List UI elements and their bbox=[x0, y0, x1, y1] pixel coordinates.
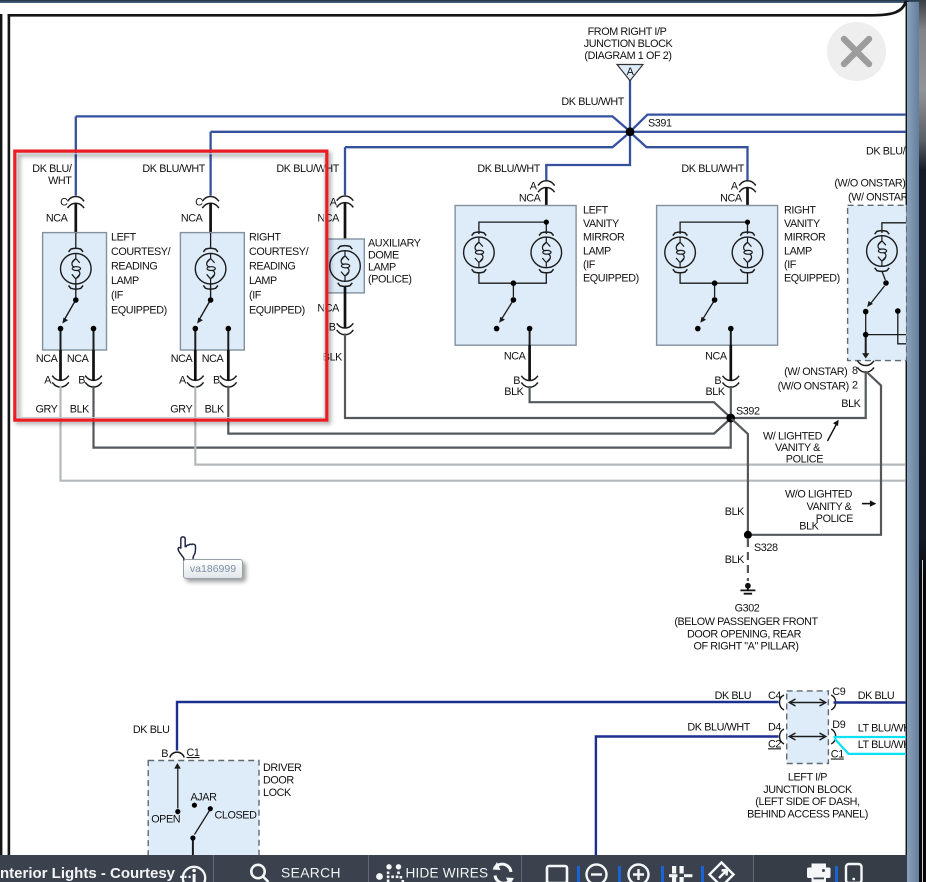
svg-text:8: 8 bbox=[852, 365, 858, 377]
svg-text:RIGHT: RIGHT bbox=[249, 231, 281, 243]
svg-text:NCA: NCA bbox=[519, 193, 542, 205]
svg-text:B: B bbox=[213, 375, 220, 387]
svg-text:LEFT: LEFT bbox=[583, 205, 609, 217]
switch contact nodes OPEN/AJAR/CLOSED (driver door lock) bbox=[175, 809, 180, 814]
svg-text:FROM RIGHT I/P: FROM RIGHT I/P bbox=[588, 26, 667, 38]
right vanity mirror lamp box bbox=[657, 205, 840, 346]
bulb (aux dome lamp) bbox=[330, 246, 361, 287]
wire: BLK from aux dome lamp to S392 bbox=[345, 334, 727, 419]
svg-text:MIRROR: MIRROR bbox=[784, 232, 826, 244]
wire: BLK from right courtesy lamp to S392 bbox=[228, 386, 729, 434]
wire: A connector into right vanity lamp bbox=[746, 188, 749, 220]
internal wiring (left vanity) bbox=[479, 220, 546, 346]
svg-text:LAMP: LAMP bbox=[249, 275, 277, 287]
svg-text:POLICE: POLICE bbox=[816, 513, 853, 525]
refresh icon bbox=[495, 864, 512, 882]
svg-text:MIRROR: MIRROR bbox=[583, 232, 625, 244]
svg-text:DOME: DOME bbox=[368, 250, 399, 262]
svg-text:(IF: (IF bbox=[111, 290, 124, 302]
note: W/O LIGHTED VANITY & POLICE with arrow bbox=[785, 489, 876, 533]
page frame: left border line bbox=[8, 14, 11, 855]
zoom in icon bbox=[629, 865, 649, 882]
junction block caption bbox=[747, 771, 868, 820]
svg-text:D4: D4 bbox=[768, 722, 781, 734]
svg-text:GRY: GRY bbox=[170, 404, 192, 416]
wire: A connector into left vanity lamp bbox=[545, 188, 548, 220]
wire: BLK pin to S392 (W/ LIGHTED VANITY & POLICE) bbox=[735, 371, 866, 418]
svg-text:SEARCH: SEARCH bbox=[281, 866, 341, 881]
svg-text:NCA: NCA bbox=[171, 353, 194, 365]
connector A (aux dome lamp) bbox=[276, 163, 353, 225]
connector C1 at driver door lock bbox=[161, 747, 200, 760]
wire: lamp internal top bbox=[210, 233, 212, 249]
svg-text:POLICE: POLICE bbox=[786, 454, 823, 466]
left vanity mirror lamp box bbox=[455, 205, 639, 346]
wire: S391 left top branch to left courtesy lamp drop bbox=[76, 116, 630, 195]
wire: dashed BLK from S328 to ground bbox=[747, 539, 749, 581]
svg-text:DK BLU: DK BLU bbox=[133, 724, 170, 736]
wire: lamp internal top bbox=[75, 233, 77, 249]
svg-text:LEFT: LEFT bbox=[111, 231, 137, 243]
wire: S391 left middle branch to right courtesy lamp drop bbox=[211, 132, 630, 196]
svg-text:READING: READING bbox=[249, 261, 295, 273]
wire: S391 left bottom branch to auxiliary dome lamp drop bbox=[345, 133, 630, 195]
svg-text:COURTESY/: COURTESY/ bbox=[249, 246, 309, 258]
svg-text:(POLICE): (POLICE) bbox=[368, 274, 412, 286]
switch contact nodes (left courtesy lamp) bbox=[58, 326, 64, 332]
svg-text:VANITY &: VANITY & bbox=[806, 501, 852, 513]
wire: LT BLU/WHT exits D9 to page edge bbox=[834, 736, 907, 738]
svg-text:VANITY &: VANITY & bbox=[775, 442, 821, 454]
svg-text:JUNCTION BLOCK: JUNCTION BLOCK bbox=[763, 784, 853, 796]
svg-text:nterior Lights - Courtesy ...: nterior Lights - Courtesy ... bbox=[0, 865, 192, 882]
svg-text:NCA: NCA bbox=[181, 213, 204, 225]
svg-text:OF RIGHT "A" PILLAR): OF RIGHT "A" PILLAR) bbox=[693, 641, 798, 653]
auxiliary dome lamp box bbox=[326, 238, 420, 293]
switch nodes (onstar module) bbox=[883, 280, 889, 286]
svg-text:DK BLU/WHT: DK BLU/WHT bbox=[561, 96, 624, 108]
svg-text:BLK: BLK bbox=[841, 398, 861, 410]
svg-text:GRY: GRY bbox=[35, 404, 57, 416]
svg-text:A: A bbox=[44, 375, 52, 387]
svg-text:W/O LIGHTED: W/O LIGHTED bbox=[785, 489, 853, 501]
print icon bbox=[807, 864, 831, 882]
svg-text:DK BLU/WHT: DK BLU/WHT bbox=[687, 722, 750, 734]
svg-text:CLOSED: CLOSED bbox=[215, 810, 258, 822]
bulb (onstar module) bbox=[867, 231, 898, 272]
wire: S391 branch to right vanity mirror lamp bbox=[631, 133, 748, 180]
splice S391 bbox=[626, 127, 635, 136]
svg-text:BLK: BLK bbox=[504, 386, 524, 398]
pin A connector (left courtesy lamp) bbox=[35, 350, 101, 416]
svg-text:BEHIND ACCESS PANEL): BEHIND ACCESS PANEL) bbox=[747, 809, 868, 821]
internal wiring (right vanity) bbox=[680, 220, 747, 346]
svg-text:BLK: BLK bbox=[799, 521, 819, 533]
svg-text:S328: S328 bbox=[754, 542, 778, 554]
wire: A connector into aux dome lamp bbox=[344, 203, 347, 245]
svg-text:NCA: NCA bbox=[317, 303, 340, 315]
junction block dashed box bbox=[787, 691, 829, 764]
svg-text:(BELOW PASSENGER FRONT: (BELOW PASSENGER FRONT bbox=[674, 616, 818, 628]
wire: S391 right middle branch exits page right bbox=[630, 131, 906, 133]
bulb right (left vanity) bbox=[531, 232, 562, 273]
svg-text:2: 2 bbox=[852, 380, 858, 392]
fit page icon bbox=[547, 866, 567, 882]
wire: aux dome lamp to pin B connector bbox=[344, 287, 347, 328]
svg-text:A: A bbox=[530, 181, 538, 193]
wire: C connector into lamp bbox=[74, 204, 77, 234]
wire: DK BLU from driver door lock to left I/P junction block C4 bbox=[177, 702, 779, 751]
bulb right (right vanity) bbox=[732, 232, 763, 273]
junction node at lamp feed (right vanity) bbox=[745, 220, 750, 225]
svg-text:NCA: NCA bbox=[36, 353, 59, 365]
svg-text:(DIAGRAM 1 OF 2): (DIAGRAM 1 OF 2) bbox=[584, 50, 671, 62]
svg-text:LAMP: LAMP bbox=[111, 275, 139, 287]
svg-text:NCA: NCA bbox=[504, 351, 527, 363]
svg-text:A: A bbox=[179, 375, 187, 387]
svg-text:DOOR: DOOR bbox=[263, 774, 294, 786]
svg-text:NCA: NCA bbox=[720, 193, 743, 205]
svg-text:B: B bbox=[78, 375, 85, 387]
svg-text:NCA: NCA bbox=[46, 213, 69, 225]
svg-text:OPEN: OPEN bbox=[151, 814, 180, 826]
internal wiring (onstar module) bbox=[862, 223, 906, 359]
svg-text:DRIVER: DRIVER bbox=[263, 762, 302, 774]
bulb (right courtesy lamp) bbox=[195, 248, 226, 289]
svg-text:VANITY: VANITY bbox=[784, 218, 820, 230]
wire: BLK from right vanity straight down to S392 bbox=[730, 386, 732, 418]
wire: S392 down to S328 bbox=[732, 419, 748, 533]
svg-text:D9: D9 bbox=[832, 719, 845, 731]
svg-text:EQUIPPED): EQUIPPED) bbox=[111, 304, 167, 316]
svg-text:READING: READING bbox=[111, 261, 157, 273]
switch (driver door lock) bbox=[174, 763, 209, 856]
svg-text:RIGHT: RIGHT bbox=[784, 205, 816, 217]
bottom toolbar bbox=[0, 855, 907, 882]
bulb left (right vanity) bbox=[665, 232, 696, 273]
tooltip va186999 bbox=[183, 559, 243, 579]
svg-text:LT BLU/WH: LT BLU/WH bbox=[858, 722, 911, 734]
pin 8/2 connector (onstar module) bbox=[778, 361, 874, 410]
svg-text:C9: C9 bbox=[832, 686, 845, 698]
svg-text:S391: S391 bbox=[648, 118, 672, 130]
svg-text:C1: C1 bbox=[187, 747, 200, 759]
svg-text:EQUIPPED): EQUIPPED) bbox=[784, 273, 840, 285]
wire: S391 right top branch exits page right bbox=[631, 115, 906, 131]
splice S392 bbox=[726, 414, 735, 423]
svg-text:(W/O ONSTAR): (W/O ONSTAR) bbox=[834, 178, 905, 190]
connector C (right courtesy lamp) bbox=[142, 163, 218, 225]
junction node at lamp feed (left vanity) bbox=[544, 220, 549, 225]
svg-text:NCA: NCA bbox=[317, 213, 340, 225]
note: W/ LIGHTED VANITY & POLICE with arrow bbox=[763, 420, 839, 466]
pin B connector (right vanity) bbox=[705, 345, 739, 398]
svg-text:DK BLU: DK BLU bbox=[715, 690, 752, 702]
svg-text:LAMP: LAMP bbox=[583, 245, 611, 257]
svg-text:DK BLU: DK BLU bbox=[858, 690, 895, 702]
hide wires icon bbox=[376, 864, 404, 882]
svg-text:C: C bbox=[60, 197, 68, 209]
svg-text:BLK: BLK bbox=[705, 386, 725, 398]
wire: S391 branch down-left to left vanity mirror lamp bbox=[546, 132, 630, 180]
svg-text:DK BLU/: DK BLU/ bbox=[32, 163, 72, 175]
svg-text:LT BLU/WH: LT BLU/WH bbox=[858, 739, 911, 751]
svg-text:B: B bbox=[329, 322, 336, 334]
wire: BLK pin to S328 (W/O LIGHTED VANITY & POLICE) bbox=[752, 372, 882, 535]
svg-text:DK BLU/WHT: DK BLU/WHT bbox=[142, 163, 205, 175]
wire: BLK from left vanity to S392 bbox=[530, 386, 730, 417]
page frame: left outer edge line bbox=[0, 14, 2, 855]
svg-text:DOOR OPENING, REAR: DOOR OPENING, REAR bbox=[687, 628, 802, 640]
svg-text:C1: C1 bbox=[831, 749, 844, 761]
center wires icon bbox=[669, 866, 692, 882]
switch contact nodes (right courtesy lamp) bbox=[193, 326, 199, 332]
svg-text:(W/ ONSTAR: (W/ ONSTAR bbox=[848, 192, 909, 204]
svg-text:S392: S392 bbox=[736, 406, 760, 418]
off-page triangle A bbox=[617, 65, 643, 81]
wire: DK BLU exits junction block C9 to page edge bbox=[834, 701, 907, 703]
svg-text:A: A bbox=[330, 197, 338, 209]
svg-text:HIDE WIRES: HIDE WIRES bbox=[406, 866, 489, 881]
svg-text:G302: G302 bbox=[735, 603, 760, 615]
svg-text:BLK: BLK bbox=[725, 554, 745, 566]
wire: BLK from left courtesy lamp pin B to S392 bbox=[94, 386, 731, 448]
pass-through C4/C9 with arrows bbox=[780, 695, 836, 710]
connector C (left courtesy lamp) bbox=[32, 163, 84, 225]
wire: GRY from right courtesy lamp across page bbox=[195, 386, 905, 465]
zoom out icon bbox=[587, 865, 607, 882]
connector A (right vanity) bbox=[681, 163, 755, 205]
svg-text:JUNCTION BLOCK: JUNCTION BLOCK bbox=[584, 38, 674, 50]
search icon + label bbox=[251, 865, 268, 882]
jump to diagram icon bbox=[709, 862, 733, 882]
close button bbox=[827, 22, 886, 81]
wire: triangle A down to S391 bbox=[629, 80, 631, 132]
svg-text:LOCK: LOCK bbox=[263, 787, 292, 799]
pin B connector (left vanity) bbox=[504, 345, 538, 398]
switch pivot node (left courtesy lamp) bbox=[73, 297, 79, 303]
svg-text:(IF: (IF bbox=[249, 290, 262, 302]
splice S328 bbox=[744, 531, 752, 539]
driver door lock box (dashed) bbox=[148, 761, 302, 858]
ground G302 bbox=[674, 583, 818, 653]
svg-text:A: A bbox=[731, 181, 739, 193]
svg-text:BLK: BLK bbox=[70, 404, 90, 416]
svg-text:EQUIPPED): EQUIPPED) bbox=[249, 304, 305, 316]
svg-text:COURTESY/: COURTESY/ bbox=[111, 246, 171, 258]
connector A (left vanity) bbox=[477, 163, 554, 205]
save to device icon bbox=[846, 864, 862, 882]
wire: DK BLU/WHT up from bottom into junction block D4 bbox=[596, 737, 779, 857]
svg-text:AJAR: AJAR bbox=[191, 792, 218, 804]
svg-text:(LEFT SIDE OF DASH,: (LEFT SIDE OF DASH, bbox=[755, 796, 860, 808]
svg-text:VANITY: VANITY bbox=[583, 218, 619, 230]
svg-text:NCA: NCA bbox=[202, 353, 225, 365]
wire: GRY from left courtesy lamp pin A across page bbox=[61, 386, 906, 481]
svg-text:(IF: (IF bbox=[784, 259, 797, 271]
bulb (left courtesy lamp) bbox=[61, 248, 92, 289]
left courtesy lamp box bbox=[43, 231, 171, 350]
right courtesy lamp box bbox=[180, 231, 308, 350]
svg-text:BLK: BLK bbox=[725, 506, 745, 518]
svg-text:LAMP: LAMP bbox=[368, 262, 396, 274]
pin labels of junction block bbox=[715, 686, 911, 761]
svg-text:EQUIPPED): EQUIPPED) bbox=[583, 273, 639, 285]
switch pivot node (right courtesy lamp) bbox=[208, 297, 214, 303]
info icon bbox=[183, 867, 205, 882]
svg-text:NCA: NCA bbox=[67, 353, 90, 365]
svg-text:A: A bbox=[627, 66, 635, 78]
bus and switch nodes (right vanity) bbox=[712, 280, 718, 286]
svg-text:W/ LIGHTED: W/ LIGHTED bbox=[763, 430, 823, 442]
svg-text:DK BLU/WHT: DK BLU/WHT bbox=[276, 163, 339, 175]
svg-text:BLK: BLK bbox=[205, 404, 225, 416]
pin A/B connectors (right courtesy lamp) bbox=[170, 350, 236, 416]
svg-text:WHT: WHT bbox=[48, 175, 72, 187]
svg-text:C: C bbox=[195, 197, 203, 209]
svg-text:DK BLU/WHT: DK BLU/WHT bbox=[681, 163, 744, 175]
svg-text:LAMP: LAMP bbox=[784, 245, 812, 257]
switch (right courtesy lamp) bbox=[195, 284, 228, 351]
svg-text:(W/ ONSTAR): (W/ ONSTAR) bbox=[784, 366, 847, 378]
mouse cursor (hand pointer) bbox=[178, 537, 195, 560]
red selection rectangle with shadow bbox=[15, 151, 327, 420]
wire: LT BLU/WHT diagonal exits C1 to page edge bbox=[835, 739, 907, 754]
svg-text:AUXILIARY: AUXILIARY bbox=[368, 238, 421, 250]
bulb left (left vanity) bbox=[464, 232, 495, 273]
wire: C connector into lamp bbox=[209, 204, 212, 234]
svg-text:C2: C2 bbox=[768, 738, 781, 750]
bus and switch nodes (left vanity) bbox=[511, 280, 517, 286]
svg-text:(W/O ONSTAR): (W/O ONSTAR) bbox=[778, 381, 849, 393]
svg-text:(IF: (IF bbox=[583, 259, 596, 271]
svg-text:B: B bbox=[161, 748, 168, 760]
svg-text:NCA: NCA bbox=[705, 351, 728, 363]
switch (left courtesy lamp) bbox=[61, 284, 94, 351]
svg-text:LEFT I/P: LEFT I/P bbox=[788, 771, 827, 783]
pass-through D4-D9/C2-C1 with arrows bbox=[780, 729, 836, 744]
svg-text:C4: C4 bbox=[768, 690, 781, 702]
svg-text:DK BLU/WHT: DK BLU/WHT bbox=[477, 163, 540, 175]
